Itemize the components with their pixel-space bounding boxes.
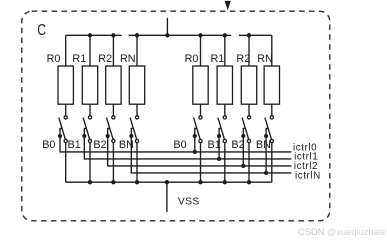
wire: right B2 control tap bbox=[243, 128, 245, 166]
switch right B1 top contact bbox=[223, 116, 226, 119]
wire: VSS stem bbox=[166, 182, 168, 212]
svg-text:R2: R2 bbox=[236, 53, 250, 65]
svg-text:R0: R0 bbox=[185, 53, 199, 65]
wire: right B1 control tap bbox=[219, 128, 221, 159]
dashed block boundary C bbox=[22, 11, 330, 221]
node: right B0 blade tap dot bbox=[193, 134, 197, 138]
wire: left BN control tap + net ictrlN line bbox=[131, 128, 291, 173]
node: right B1 blade tap dot bbox=[217, 134, 221, 138]
node: top bus junction left R1 bbox=[88, 33, 92, 37]
switch left B0 blade bbox=[59, 118, 66, 140]
resistor left R0 bbox=[58, 66, 73, 104]
input current arrow bbox=[225, 1, 231, 10]
node: left B0 blade tap dot bbox=[58, 134, 62, 138]
wire: right R0 bottom lead bbox=[200, 104, 202, 116]
switch left BN blade bbox=[130, 118, 137, 140]
node: bottom bus junction left B2 bbox=[111, 180, 115, 184]
wire: right R0 top lead bbox=[200, 35, 202, 66]
wire: top bus middle segment bbox=[129, 34, 232, 36]
svg-text:CSDN @xueqiuzhale: CSDN @xueqiuzhale bbox=[298, 227, 386, 237]
node: top bus junction right R0 bbox=[198, 33, 202, 37]
switch right B1 blade bbox=[218, 118, 225, 140]
wire: left B0 control tap + net ictrl0 line bbox=[60, 128, 291, 152]
switch right B2 blade bbox=[242, 118, 249, 140]
switch left BN top contact bbox=[135, 116, 138, 119]
wire: right RN top lead bbox=[271, 35, 273, 66]
wire: right R1 top lead bbox=[224, 35, 226, 66]
switch right B0 bottom contact bbox=[199, 139, 202, 142]
node: VSS junction on bottom bus bbox=[165, 180, 169, 184]
svg-text:BN: BN bbox=[256, 139, 271, 151]
switch left B2 top contact bbox=[112, 116, 115, 119]
wire: left R2 bottom lead bbox=[112, 104, 114, 116]
switch right BN bottom contact bbox=[270, 139, 273, 142]
wire: left BN lead to bottom bus bbox=[136, 143, 138, 183]
svg-text:VSS: VSS bbox=[178, 197, 200, 208]
switch right BN blade bbox=[265, 118, 272, 140]
wire: left R0 top lead bbox=[65, 35, 67, 66]
wire: left RN bottom lead bbox=[136, 104, 138, 116]
node: right BN blade tap dot bbox=[264, 134, 268, 138]
svg-text:R1: R1 bbox=[211, 53, 225, 65]
switch left BN bottom contact bbox=[135, 139, 138, 142]
wire: left B1 lead to bottom bus bbox=[89, 143, 91, 183]
svg-text:R1: R1 bbox=[72, 53, 86, 65]
resistor right RN bbox=[264, 66, 279, 104]
wire: right B0 control tap bbox=[195, 128, 197, 152]
node: bottom bus junction right B0 bbox=[198, 180, 202, 184]
resistor left R1 bbox=[82, 66, 97, 104]
wire: right B1 lead to bottom bus bbox=[224, 143, 226, 183]
switch left B1 top contact bbox=[88, 116, 91, 119]
node: bottom bus junction left BN bbox=[135, 180, 139, 184]
wire: left R2 top lead bbox=[112, 35, 114, 66]
node: right B0 tap junction on ictrl0 bbox=[193, 150, 197, 154]
wire: right RN bottom lead bbox=[271, 104, 273, 116]
switch left B1 bottom contact bbox=[88, 139, 91, 142]
node: right B2 blade tap dot bbox=[241, 134, 245, 138]
switch right B0 top contact bbox=[199, 116, 202, 119]
node: left BN blade tap dot bbox=[129, 134, 133, 138]
wire: left B2 lead to bottom bus bbox=[112, 143, 114, 183]
switch right B1 bottom contact bbox=[223, 139, 226, 142]
svg-text:B2: B2 bbox=[93, 139, 106, 151]
wire: right BN control tap bbox=[266, 128, 268, 173]
svg-text:R0: R0 bbox=[47, 53, 61, 65]
wire: right R2 bottom lead bbox=[248, 104, 250, 116]
switch right BN top contact bbox=[270, 116, 273, 119]
node: bottom bus junction left B1 bbox=[88, 180, 92, 184]
switch left B2 blade bbox=[107, 118, 114, 140]
wire: right R1 bottom lead bbox=[224, 104, 226, 116]
resistor left R2 bbox=[106, 66, 121, 104]
wire: left R0 bottom lead bbox=[65, 104, 67, 116]
svg-text:C: C bbox=[37, 22, 46, 39]
wire: left B2 control tap + net ictrl2 line bbox=[108, 128, 292, 166]
wire: right B0 lead to bottom bus bbox=[200, 143, 202, 183]
node: top bus junction left RN bbox=[135, 33, 139, 37]
switch left B1 blade bbox=[83, 118, 90, 140]
wire: input stem to top bus bbox=[166, 18, 168, 36]
node: input junction on top bus bbox=[165, 33, 169, 37]
svg-text:B0: B0 bbox=[173, 139, 186, 151]
switch left B0 top contact bbox=[64, 116, 67, 119]
switch right B0 blade bbox=[194, 118, 201, 140]
wire: bottom bus bbox=[66, 181, 272, 183]
resistor right R0 bbox=[193, 66, 208, 104]
wire: top bus left segment bbox=[66, 34, 122, 36]
svg-text:RN: RN bbox=[120, 53, 136, 65]
resistor right R1 bbox=[217, 66, 232, 104]
node: top bus junction left R2 bbox=[111, 33, 115, 37]
svg-text:ictrlN: ictrlN bbox=[295, 171, 321, 182]
wire: right B2 lead to bottom bus bbox=[248, 143, 250, 183]
svg-text:BN: BN bbox=[119, 139, 134, 151]
wire: left B1 control tap + net ictrl1 line bbox=[84, 128, 291, 159]
switch right B2 top contact bbox=[247, 116, 250, 119]
wire: top bus right segment bbox=[239, 34, 272, 36]
node: right B2 tap junction on ictrl2 bbox=[241, 164, 245, 168]
wire: right BN lead to bottom bus bbox=[271, 143, 273, 183]
svg-text:R2: R2 bbox=[98, 53, 112, 65]
svg-text:B2: B2 bbox=[231, 139, 244, 151]
switch left B0 bottom contact bbox=[64, 139, 67, 142]
switch left B2 bottom contact bbox=[112, 139, 115, 142]
wire: left RN top lead bbox=[136, 35, 138, 66]
svg-text:B1: B1 bbox=[208, 139, 221, 151]
node: top bus junction right R1 bbox=[223, 33, 227, 37]
wire: left R1 top lead bbox=[89, 35, 91, 66]
svg-text:B1: B1 bbox=[68, 139, 81, 151]
node: bottom bus junction right B2 bbox=[247, 180, 251, 184]
wire: left B0 lead to bottom bus bbox=[65, 143, 67, 183]
node: right BN tap junction on ictrlN bbox=[264, 171, 268, 175]
wire: right R2 top lead bbox=[248, 35, 250, 66]
switch right B2 bottom contact bbox=[247, 139, 250, 142]
wire: left R1 bottom lead bbox=[89, 104, 91, 116]
node: bottom bus junction right B1 bbox=[223, 180, 227, 184]
svg-text:B0: B0 bbox=[42, 139, 55, 151]
node: left B1 blade tap dot bbox=[82, 134, 86, 138]
svg-text:RN: RN bbox=[257, 53, 273, 65]
resistor left RN bbox=[129, 66, 144, 104]
node: left B2 blade tap dot bbox=[106, 134, 110, 138]
node: right B1 tap junction on ictrl1 bbox=[217, 157, 221, 161]
resistor right R2 bbox=[241, 66, 256, 104]
node: top bus junction right R2 bbox=[247, 33, 251, 37]
